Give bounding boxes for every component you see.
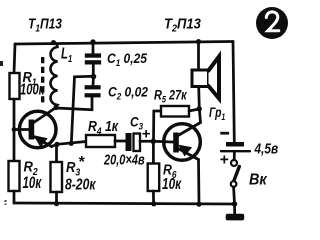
svg-text:8-20к: 8-20к: [65, 176, 96, 194]
capacitor C2: [85, 85, 101, 97]
wire R4 to C3: [115, 140, 126, 143]
wire ground stub: [233, 204, 236, 214]
svg-text:Т2П13: Т2П13: [164, 16, 201, 35]
ground: [226, 214, 245, 221]
wire emitter T1 to R4: [52, 142, 87, 147]
svg-text:C2 0,02: C2 0,02: [108, 84, 149, 102]
label C1 0,25: [107, 50, 148, 68]
label T1 P13: [28, 15, 63, 34]
wire base node down to R6: [152, 141, 155, 163]
node A vertical end junction: [69, 141, 74, 146]
label battery plus: [220, 152, 229, 169]
node base T1 junction: [12, 127, 17, 132]
svg-text:R4 1к: R4 1к: [88, 118, 119, 136]
figure number 2 badge: [256, 7, 288, 39]
node ground junction: [232, 201, 237, 206]
label battery 4,5v: [254, 140, 278, 157]
resistor R3: [51, 162, 63, 192]
wire R2 to bottom rail: [13, 191, 16, 203]
wire C1 top to rail: [92, 42, 95, 54]
node base T2 junction: [151, 139, 156, 144]
wire speaker top to rail: [197, 42, 200, 70]
wire C3 to base node T2: [140, 140, 153, 143]
svg-text:Гр1: Гр1: [209, 104, 226, 122]
node coil top on rail: [51, 40, 56, 45]
label T2 P13: [164, 16, 201, 35]
resistor R4: [86, 135, 115, 147]
node A (C1-C2 tap): [91, 74, 97, 80]
node C1 on rail: [90, 39, 95, 44]
wire emitter T2 down to bottom rail: [197, 160, 200, 205]
resistor R6: [148, 164, 160, 192]
wire R5 left lead: [154, 110, 161, 113]
label L1: [61, 44, 72, 65]
speaker Gr1: [192, 57, 219, 99]
label C3 value 20,0x4v: [103, 151, 145, 168]
node emitter T2 bottom junction: [196, 202, 201, 207]
resistor R2: [9, 161, 20, 191]
wire C1 bottom to node A: [92, 65, 95, 77]
node speaker on rail: [196, 39, 201, 44]
wire base node up to R5: [152, 111, 155, 141]
label R3* 8-20k: [65, 154, 96, 194]
wire top rail: [15, 42, 233, 45]
svg-text:Т1П13: Т1П13: [28, 15, 63, 34]
wire C2 bottom stub: [91, 97, 94, 110]
capacitor C3 electrolytic: [126, 133, 141, 151]
svg-text:20,0×4в: 20,0×4в: [103, 151, 145, 168]
node R3 bottom junction: [54, 201, 59, 206]
wire R3 to bottom rail: [55, 192, 58, 204]
wire C2 top to node A: [92, 77, 95, 85]
svg-text:R5 27к: R5 27к: [154, 87, 187, 105]
battery B1 4.5V: [221, 142, 250, 151]
wire R6 to bottom rail: [152, 191, 155, 204]
svg-text:10к: 10к: [23, 174, 42, 193]
node collector T1 / coil bottom junction: [53, 105, 58, 110]
wire T1 base lead: [14, 128, 28, 131]
wire switch to ground node: [232, 187, 236, 204]
wire right rail to battery: [233, 42, 234, 143]
label C3 plus: [142, 126, 151, 143]
speck left edge bottom: [5, 200, 7, 205]
wire left rail upper (top rail to R1): [14, 44, 15, 73]
node emitter T1 junction: [54, 142, 59, 147]
wire R5 right lead: [189, 109, 199, 111]
label R2 10k: [23, 158, 42, 193]
svg-text:L1: L1: [61, 44, 72, 65]
svg-text:4,5в: 4,5в: [254, 140, 278, 157]
label C2 0,02: [108, 84, 149, 102]
label R1 100k: [20, 69, 45, 98]
svg-text:+: +: [220, 152, 229, 169]
wire collector node to C2 bottom stub: [56, 108, 92, 110]
node R6 bottom junction: [151, 201, 156, 206]
resistor R5: [161, 106, 189, 117]
wire T2 base lead: [153, 140, 173, 143]
label C3: [130, 114, 143, 132]
ferrite core dashed line: [41, 57, 44, 104]
label Vk: [249, 171, 268, 189]
switch Vk: [231, 160, 240, 187]
label R5 27k: [154, 87, 187, 105]
wire R1 to base node: [13, 99, 16, 130]
svg-text:*: *: [78, 154, 85, 171]
resistor R1: [10, 73, 20, 99]
wire emitter node to R3: [55, 144, 58, 162]
capacitor C1: [85, 53, 101, 64]
svg-text:10к: 10к: [162, 174, 182, 192]
wire collector T2 up to speaker: [199, 87, 201, 123]
label R6 10k: [162, 162, 182, 193]
transistor T2: [164, 123, 201, 161]
speck left edge mid: [0, 61, 3, 66]
inductor L1: [51, 43, 58, 108]
transistor T1: [19, 108, 56, 148]
wire base node to R2: [13, 130, 16, 161]
wire bottom rail: [14, 203, 235, 204]
wire node A to emitter node (vertical): [71, 76, 93, 143]
svg-text:C1 0,25: C1 0,25: [107, 50, 148, 68]
node R5-collector junction: [197, 106, 202, 111]
label R4 1k: [88, 118, 119, 136]
wire battery to switch: [233, 151, 236, 160]
label battery minus: [220, 132, 229, 135]
svg-text:Вк: Вк: [249, 171, 268, 189]
label Gr1: [209, 104, 226, 122]
